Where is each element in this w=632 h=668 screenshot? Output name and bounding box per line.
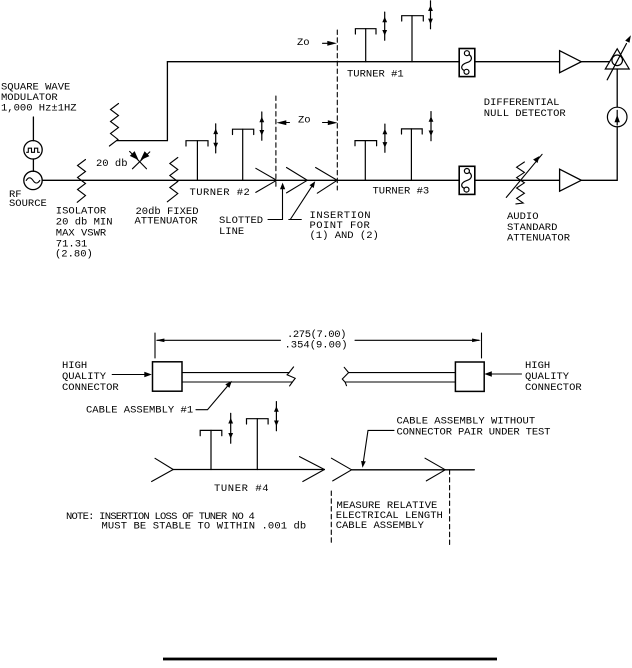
cable under test right chevron <box>425 458 445 481</box>
wire modulator lead <box>32 117 34 141</box>
tuner 1 arrows 2 <box>428 1 433 29</box>
label audio standard attenuator <box>507 211 571 245</box>
svg-text:Zo: Zo <box>298 114 311 126</box>
svg-text:1,000 Hz±1HZ: 1,000 Hz±1HZ <box>1 102 77 114</box>
tuner 4 arrows 2 <box>274 402 279 431</box>
variable gain triangle <box>605 35 631 80</box>
svg-text:TUNER #4: TUNER #4 <box>214 483 269 495</box>
svg-text:TURNER #3: TURNER #3 <box>373 185 430 197</box>
variable attenuator crossed arrows <box>130 151 150 169</box>
tuner 4 stub 2 <box>247 419 269 470</box>
label tuner 4 <box>214 483 269 495</box>
svg-text:SOURCE: SOURCE <box>9 198 47 210</box>
slotted line leader <box>268 183 285 220</box>
tuner 4 line <box>173 469 324 471</box>
wire modulator to source <box>32 159 34 171</box>
wire box1 to amp1 <box>475 61 560 63</box>
detector box 1 <box>459 49 475 77</box>
tuner 3 stub 1 <box>355 141 377 181</box>
tuner 2 arrows 1 <box>213 124 218 153</box>
amplifier 2 <box>560 169 582 191</box>
square wave modulator symbol <box>24 141 42 159</box>
left connector label <box>62 360 119 394</box>
left connector arrow <box>112 372 152 377</box>
svg-text:CONNECTOR: CONNECTOR <box>525 382 582 394</box>
dashed reference line 1 <box>275 96 277 190</box>
measure dashed line right <box>449 470 451 547</box>
dimension line <box>156 339 481 343</box>
tuner 2 stub 1 <box>186 141 208 181</box>
bottom rule <box>163 658 497 661</box>
tuner 3 stub 2 <box>402 129 423 180</box>
wire main line 2 <box>42 179 459 181</box>
svg-text:(2.80): (2.80) <box>55 248 93 260</box>
label dimension values <box>285 329 348 352</box>
Zo lower left arrow <box>277 120 290 125</box>
wire corner to upper line <box>117 62 167 141</box>
fixed attenuator <box>167 158 178 202</box>
label note <box>66 511 306 533</box>
svg-text:TURNER #2: TURNER #2 <box>190 187 251 199</box>
tuner 3 arrows 1 <box>383 124 388 152</box>
wire triangle to meter <box>616 69 618 107</box>
svg-text:.354(9.00): .354(9.00) <box>285 339 348 351</box>
Zo lower right arrow <box>323 120 338 125</box>
slotted line chevron 3 <box>316 168 338 194</box>
Zo upper arrow <box>323 41 337 46</box>
svg-text:MUST BE STABLE TO WITHIN .001: MUST BE STABLE TO WITHIN .001 db <box>102 521 307 533</box>
dashed reference line 2 <box>336 30 338 190</box>
tuner 4 stub 1 <box>200 430 222 469</box>
label Zo lower <box>298 114 311 126</box>
cable 2 conductors <box>345 373 455 382</box>
cable assembly 1 leader <box>196 381 232 410</box>
cable under test left chevron <box>331 458 351 481</box>
svg-text:ATTENUATOR: ATTENUATOR <box>507 233 571 245</box>
label square wave modulator <box>1 81 77 114</box>
wire amp1 to null meter <box>581 61 613 63</box>
svg-text:CONNECTOR: CONNECTOR <box>62 382 119 394</box>
tuner 1 stub 2 <box>402 16 424 62</box>
audio standard attenuator <box>506 154 542 204</box>
svg-text:(1) AND (2): (1) AND (2) <box>310 230 379 242</box>
label measure relative <box>336 500 443 532</box>
wire box2 to amp2 <box>475 179 560 181</box>
right connector box <box>455 362 484 391</box>
RF source symbol <box>24 171 42 189</box>
left connector box <box>153 362 183 391</box>
amplifier 1 <box>560 51 582 73</box>
cable 2 break <box>342 367 348 385</box>
right connector arrow <box>484 371 521 376</box>
tuner 4 line left chevron <box>152 458 174 481</box>
slotted line chevron 2 <box>287 168 308 193</box>
label Zo upper <box>297 37 310 49</box>
label 20 db <box>96 158 128 170</box>
right connector label <box>525 360 582 394</box>
tuner 3 arrows 2 <box>429 112 434 141</box>
label RF source <box>9 189 47 210</box>
cable assembly without leader <box>361 430 394 467</box>
label cable assembly 1 <box>86 404 193 416</box>
wire meter to amp2 output <box>581 127 617 181</box>
svg-text:CONNECTOR PAIR UNDER TEST: CONNECTOR PAIR UNDER TEST <box>397 427 551 439</box>
null meter <box>607 107 627 127</box>
label tuner 3 <box>373 185 430 197</box>
label differential null detector <box>484 97 567 120</box>
svg-text:TURNER #1: TURNER #1 <box>347 68 404 80</box>
insertion point leader <box>289 181 315 219</box>
label slotted line <box>219 215 263 238</box>
tuner 4 line right chevron <box>300 457 325 482</box>
label fixed attenuator <box>135 206 199 228</box>
tuner 2 arrows 2 <box>259 112 264 140</box>
svg-text:CABLE ASSEMBLY: CABLE ASSEMBLY <box>336 520 425 532</box>
cable 1 break <box>287 367 295 386</box>
tuner 1 stub 1 <box>355 29 376 62</box>
cable 1 conductors <box>182 373 292 382</box>
svg-text:ATTENUATOR: ATTENUATOR <box>135 215 199 227</box>
label tuner 1 <box>347 68 404 80</box>
svg-text:LINE: LINE <box>219 226 244 238</box>
cable under test line <box>352 469 475 471</box>
detector box 2 <box>459 166 475 194</box>
svg-text:Zo: Zo <box>297 37 310 49</box>
label insertion point <box>310 210 379 242</box>
tuner 1 arrows 1 <box>382 12 387 40</box>
svg-text:20 db: 20 db <box>96 158 128 170</box>
tuner 4 arrows 1 <box>228 413 233 443</box>
pad resistor to upper line <box>109 104 118 147</box>
dimension ticks <box>155 333 482 358</box>
isolator <box>77 160 85 203</box>
label cable assembly without connector pair <box>397 416 551 439</box>
label tuner 2 <box>190 187 251 199</box>
svg-text:CABLE ASSEMBLY #1: CABLE ASSEMBLY #1 <box>86 404 193 416</box>
slotted line chevron 1 <box>256 168 277 192</box>
label isolator <box>55 205 113 260</box>
wire main line 1 <box>167 61 459 63</box>
measure dashed line left <box>330 491 332 545</box>
svg-text:NULL DETECTOR: NULL DETECTOR <box>484 108 567 120</box>
tuner 2 stub 2 <box>233 129 254 180</box>
